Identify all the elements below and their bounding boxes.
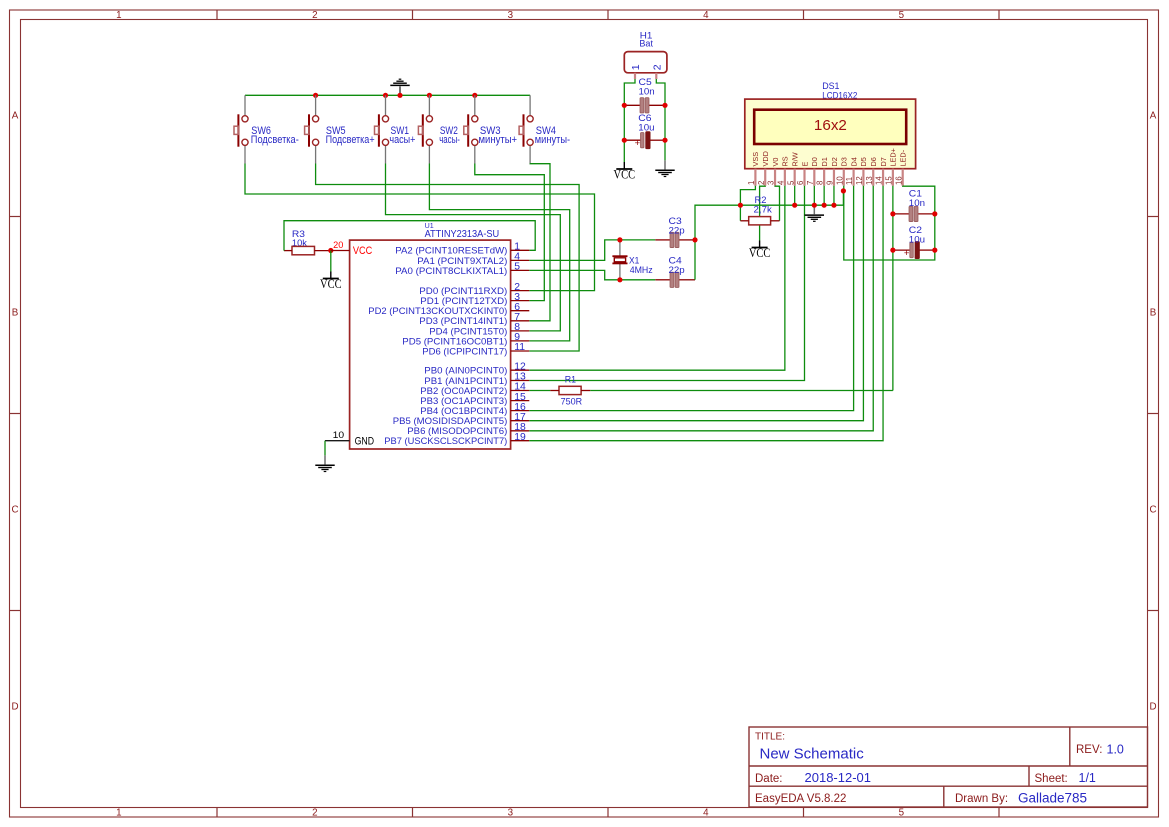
crystal X1 4MHz (612, 240, 653, 280)
junction (792, 203, 797, 208)
junction (397, 93, 402, 98)
U1 pin 5 PA0 (395, 262, 529, 277)
svg-text:9: 9 (826, 181, 835, 185)
svg-text:D1: D1 (820, 157, 829, 166)
DS1 pin 15 LED+ (884, 148, 897, 186)
junction (313, 93, 318, 98)
svg-text:1: 1 (116, 807, 121, 818)
svg-text:VCC: VCC (749, 245, 771, 260)
svg-text:C: C (11, 505, 18, 516)
DS1 pin 13 D6 (865, 157, 878, 186)
wire VSS to ground bus (740, 186, 755, 221)
junction (812, 203, 817, 208)
DS1 pin 5 R/W (786, 152, 799, 186)
MCU U1 ATTINY2313A-SU (325, 221, 511, 449)
svg-text:D4: D4 (849, 157, 858, 166)
svg-text:PB7 (USCKSCLSCKPCINT7): PB7 (USCKSCLSCKPCINT7) (384, 436, 507, 447)
pushbutton SW5 (305, 95, 375, 163)
svg-text:E: E (800, 162, 809, 167)
wire U1 GND pin to ground (324, 441, 326, 456)
wire D5 to U1 pin 17 (529, 186, 863, 421)
DS1 pin 16 LED- (894, 149, 907, 185)
resistor R3 10k (284, 229, 331, 255)
svg-text:2,7k: 2,7k (754, 205, 772, 216)
svg-text:16: 16 (894, 176, 903, 185)
capacitor C1 10n (893, 189, 935, 222)
svg-text:10n: 10n (909, 198, 925, 209)
svg-text:22p: 22p (669, 265, 685, 276)
svg-text:минуты-: минуты- (535, 134, 571, 146)
svg-text:2: 2 (652, 64, 664, 70)
U1 pin 4 PA1 (417, 252, 529, 267)
wire C3/C4 ground rail (695, 205, 740, 280)
junction (383, 93, 388, 98)
svg-text:7: 7 (806, 181, 815, 185)
junction (822, 203, 827, 208)
U1 pin 12 PB0 (424, 361, 529, 376)
svg-text:10u: 10u (909, 234, 925, 245)
svg-text:TITLE:: TITLE: (755, 732, 785, 743)
svg-text:10: 10 (835, 176, 844, 185)
power flag VCC at U1 pin 20 (320, 272, 342, 292)
svg-text:Подсветка+: Подсветка+ (326, 134, 375, 146)
junction (662, 103, 667, 108)
junction (622, 138, 627, 143)
DS1 pin 9 D2 (826, 157, 839, 186)
svg-text:11: 11 (845, 177, 854, 185)
wire VDD to VCC (760, 186, 766, 241)
junction XTAL bottom (617, 277, 622, 282)
U1 pin 9 PD5 (402, 332, 529, 347)
svg-text:1/1: 1/1 (1079, 771, 1096, 785)
capacitor C3 22p (655, 216, 695, 248)
svg-text:D0: D0 (810, 157, 819, 166)
wire D2 to ground bus (833, 186, 835, 205)
junction (890, 248, 895, 253)
DS1 pin 2 VDD (757, 151, 770, 186)
svg-text:+: + (635, 138, 641, 149)
svg-text:14: 14 (875, 176, 884, 185)
DS1 pin 11 D4 (845, 157, 858, 186)
svg-text:2018-12-01: 2018-12-01 (805, 770, 872, 785)
svg-text:B: B (1150, 308, 1157, 319)
svg-text:5: 5 (899, 10, 905, 21)
DS1 pin 10 D3 (835, 157, 848, 186)
svg-text:Drawn By:: Drawn By: (955, 793, 1008, 805)
junction (841, 188, 846, 193)
svg-text:3: 3 (767, 181, 776, 185)
svg-text:Подсветка-: Подсветка- (251, 134, 299, 146)
DS1 pin 1 VSS (747, 152, 760, 186)
svg-text:1: 1 (116, 10, 121, 21)
svg-text:3: 3 (508, 807, 514, 818)
svg-text:8: 8 (816, 181, 825, 185)
pushbutton SW1 (375, 95, 416, 163)
svg-text:B: B (12, 308, 19, 319)
svg-text:PD6 (ICPIPCINT17): PD6 (ICPIPCINT17) (422, 346, 507, 357)
svg-text:Sheet:: Sheet: (1035, 773, 1068, 785)
wire D6 to U1 pin 18 (529, 186, 873, 431)
ground top-rail (390, 79, 409, 95)
junction (831, 203, 836, 208)
ground LCD data bus (805, 205, 824, 221)
U1 pin 16 PB4 (420, 402, 529, 417)
wire SW6 to U1 pin 2 (245, 164, 595, 291)
svg-text:13: 13 (865, 176, 874, 185)
wire SW1 to U1 pin 8 (386, 164, 561, 331)
svg-text:ATTINY2313A-SU: ATTINY2313A-SU (425, 229, 500, 240)
pushbutton SW6 (234, 95, 299, 163)
svg-text:V0: V0 (771, 158, 780, 167)
svg-text:Bat: Bat (639, 39, 653, 50)
wire top rail of switches (245, 94, 530, 96)
U1 pin 7 PD3 (419, 312, 529, 327)
svg-text:R/W: R/W (790, 152, 799, 166)
junction C3 right (692, 237, 697, 242)
svg-text:D3: D3 (840, 157, 849, 166)
ground U1 pin 10 (315, 455, 334, 471)
svg-text:+: + (904, 248, 910, 259)
svg-text:LED+: LED+ (889, 148, 898, 166)
svg-text:1: 1 (747, 181, 756, 185)
svg-text:GND: GND (355, 435, 375, 447)
ground battery rail (655, 160, 674, 176)
junction (890, 211, 895, 216)
DS1 pin 7 D0 (806, 157, 819, 186)
junction (932, 211, 937, 216)
junction (932, 248, 937, 253)
svg-text:19: 19 (514, 432, 526, 443)
U1 pin 13 PB1 (424, 372, 529, 387)
wire LCD ground bus (740, 191, 843, 205)
svg-text:VDD: VDD (761, 151, 770, 166)
U1 pin 14 PB2 (420, 382, 529, 397)
wire H1 pin2 to GND rail (656, 79, 665, 160)
wire H1 pin1 to VCC rail (624, 79, 635, 162)
svg-text:VCC: VCC (353, 245, 372, 257)
connector H1 Bat (624, 31, 667, 80)
svg-text:4: 4 (776, 180, 785, 185)
wire SW5 to U1 pin 11 (316, 164, 579, 352)
svg-text:10u: 10u (638, 123, 654, 134)
svg-text:1.0: 1.0 (1107, 743, 1124, 757)
svg-text:1: 1 (630, 64, 642, 70)
svg-text:REV:: REV: (1076, 744, 1102, 756)
wire R/W to ground bus (794, 186, 796, 205)
svg-text:Date:: Date: (755, 773, 783, 785)
svg-text:750R: 750R (561, 397, 583, 408)
svg-text:D5: D5 (859, 157, 868, 166)
svg-text:4MHz: 4MHz (630, 264, 653, 275)
svg-text:LED-: LED- (899, 149, 908, 166)
wire SW3 to U1 pin 3 (475, 164, 545, 301)
power flag VCC battery rail (614, 162, 636, 182)
junction (738, 203, 743, 208)
svg-text:6: 6 (796, 181, 805, 185)
DS1 pin 6 E (796, 162, 809, 186)
svg-text:11: 11 (514, 342, 525, 353)
svg-text:20: 20 (333, 240, 343, 251)
wire SW4 to U1 pin 7 (529, 164, 550, 321)
svg-text:VCC: VCC (320, 276, 342, 291)
svg-text:D: D (1149, 702, 1156, 713)
svg-text:10: 10 (333, 430, 345, 440)
junction node pin20/VCC (328, 248, 333, 253)
junction (472, 93, 477, 98)
svg-text:A: A (12, 111, 19, 122)
DS1 pin 8 D1 (816, 157, 829, 186)
U1 pin 8 PD4 (429, 322, 529, 337)
svg-text:Gallade785: Gallade785 (1018, 791, 1087, 806)
DS1 pin 12 D5 (855, 157, 868, 186)
wire SW2 to U1 pin 9 (429, 164, 569, 341)
U1 pin 3 PD1 (420, 292, 529, 307)
svg-text:5: 5 (786, 180, 795, 185)
svg-text:часы-: часы- (439, 134, 460, 146)
wire V0 to R2 (775, 186, 779, 221)
capacitor C4 22p (655, 256, 695, 288)
wire D4 to U1 pin 16 (529, 186, 853, 411)
U1 pin 2 PD0 (419, 282, 529, 297)
capacitor C5 10n (624, 77, 665, 113)
capacitor C2 10u (893, 225, 935, 259)
svg-text:New Schematic: New Schematic (760, 746, 865, 763)
wire D3 to C2 ground (844, 186, 935, 260)
svg-text:12: 12 (855, 176, 864, 185)
power flag VCC at LCD VDD (749, 241, 771, 261)
junction (427, 93, 432, 98)
svg-text:4: 4 (703, 10, 709, 21)
wire D1 to ground bus (823, 186, 825, 205)
wire LED- to C1/C2 right rail (903, 186, 935, 250)
wire R1 to LED+ rail (590, 390, 893, 392)
svg-text:R1: R1 (565, 375, 576, 386)
svg-text:5: 5 (514, 262, 520, 273)
svg-text:10n: 10n (639, 87, 655, 98)
svg-text:VCC: VCC (614, 167, 636, 182)
svg-text:5: 5 (899, 807, 905, 818)
pushbutton SW3 (464, 95, 517, 163)
svg-text:4: 4 (703, 807, 709, 818)
U1 pin 6 PD2 (368, 302, 529, 317)
svg-text:D6: D6 (869, 157, 878, 166)
wire R3 to U1 pin 1 (reset loop) (284, 221, 535, 251)
pushbutton SW4 (519, 95, 570, 163)
svg-text:3: 3 (508, 10, 514, 21)
U1 pin 19 PB7 (384, 432, 529, 447)
svg-text:2: 2 (312, 10, 317, 21)
svg-text:D2: D2 (830, 157, 839, 166)
svg-text:15: 15 (884, 176, 893, 185)
wire RS to U1 pin 12 (529, 186, 785, 370)
svg-text:2: 2 (312, 807, 317, 818)
svg-text:22p: 22p (669, 225, 685, 236)
junction (622, 103, 627, 108)
svg-text:C: C (1149, 505, 1156, 516)
junction XTAL top (617, 237, 622, 242)
wire D0 to ground bus (813, 186, 815, 205)
wire D7 to U1 pin 19 (529, 186, 883, 441)
svg-text:D: D (11, 702, 18, 713)
U1 pin 15 PB3 (420, 392, 529, 407)
U1 pin 17 PB5 (393, 412, 530, 427)
wire U1 pin 14 to R1 (529, 390, 550, 392)
capacitor C6 10u (624, 113, 665, 149)
wire XTAL bottom node to C4 (620, 279, 655, 281)
junction (662, 138, 667, 143)
svg-text:PA0 (PCINT8CLKIXTAL1): PA0 (PCINT8CLKIXTAL1) (395, 266, 507, 277)
svg-text:16x2: 16x2 (814, 117, 847, 134)
wire U1 pin 4 to XTAL top node (529, 240, 620, 261)
wire XTAL top node to C3 (620, 239, 655, 241)
svg-text:часы+: часы+ (389, 134, 415, 146)
svg-text:минуты+: минуты+ (479, 134, 518, 146)
LCD module DS1 LCD16X2 (745, 81, 916, 169)
wire junction to VCC flag (330, 251, 332, 272)
resistor R2 2.7k (740, 195, 779, 225)
wire E to U1 pin 13 (529, 186, 804, 381)
svg-text:EasyEDA V5.8.22: EasyEDA V5.8.22 (755, 793, 846, 805)
svg-text:A: A (1150, 111, 1157, 122)
DS1 pin 14 D7 (875, 157, 888, 186)
svg-text:2: 2 (757, 181, 766, 185)
DS1 pin 4 RS (776, 156, 789, 186)
wire LED+ rail to R1 row (892, 186, 894, 391)
svg-text:VSS: VSS (751, 152, 760, 167)
U1 pin 1 PA2 (395, 242, 529, 257)
resistor R1 750R (550, 375, 590, 408)
DS1 pin 3 V0 (767, 158, 780, 186)
svg-text:D7: D7 (879, 157, 888, 166)
svg-text:RS: RS (781, 156, 790, 166)
pushbutton SW2 (418, 95, 460, 163)
U1 pin 11 PD6 (422, 342, 529, 357)
U1 pin 18 PB6 (407, 422, 529, 437)
wire U1 pin 5 to XTAL bottom node (529, 270, 620, 279)
